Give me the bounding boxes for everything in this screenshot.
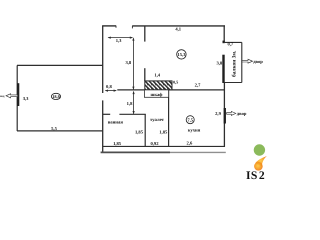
wire bathroom top wall right <box>119 113 145 115</box>
node room label 15,3 <box>177 50 186 59</box>
svg-text:вход: вход <box>0 94 5 98</box>
svg-text:2,7: 2,7 <box>195 83 201 88</box>
svg-text:шкаф: шкаф <box>151 92 164 97</box>
node closet label box <box>144 90 168 97</box>
wire left main wall lower <box>102 100 104 152</box>
svg-text:0,5: 0,5 <box>173 80 178 85</box>
svg-text:двор: двор <box>253 59 263 64</box>
svg-text:ванная: ванная <box>108 121 124 126</box>
node dimension 1,3 arrow <box>108 37 132 39</box>
svg-text:кухня: кухня <box>188 129 201 134</box>
wire bathroom top wall left <box>103 113 111 115</box>
svg-text:2,9: 2,9 <box>215 111 221 116</box>
diode balcony yard arrow <box>242 59 253 63</box>
node door tick left of top gap <box>115 26 117 28</box>
wire outer south wall west part <box>101 151 170 153</box>
svg-text:0,92: 0,92 <box>150 141 159 146</box>
svg-text:1,85: 1,85 <box>135 129 144 134</box>
wire right main wall below balcony <box>223 83 225 147</box>
wire left wing bottom wall <box>17 130 103 132</box>
node watermark orange comma <box>255 156 267 166</box>
node dimension 0,8 arrow <box>105 90 116 92</box>
svg-text:3,8: 3,8 <box>216 60 222 65</box>
svg-text:1,85: 1,85 <box>159 129 168 134</box>
wire balcony window thick wall <box>222 55 224 83</box>
svg-text:5,5: 5,5 <box>51 126 57 131</box>
wire inner south wall <box>103 145 225 147</box>
svg-text:0,7: 0,7 <box>227 42 233 47</box>
node dimension 1,8 vertical arrow <box>133 92 135 114</box>
node balcony door jamb top <box>223 41 225 44</box>
wire entrance door leaf thick <box>17 83 19 106</box>
wire right main wall above balcony door <box>223 25 225 43</box>
svg-text:1,85: 1,85 <box>113 141 122 146</box>
diode entrance arrow left <box>6 94 18 98</box>
wire kitchen door leaf thick <box>224 108 226 124</box>
svg-text:двор: двор <box>237 111 247 116</box>
svg-text:1,3: 1,3 <box>116 38 122 43</box>
svg-text:7,5: 7,5 <box>187 118 193 123</box>
svg-text:IS: IS <box>246 169 258 180</box>
node door tick right of top gap <box>131 26 133 29</box>
wire outer south wall east part <box>170 151 226 153</box>
node room label 18,8 <box>51 93 60 99</box>
wire top wall left segment <box>102 25 116 27</box>
wire interior wall horizontal <box>117 89 224 91</box>
svg-text:2: 2 <box>259 169 265 180</box>
svg-text:18,8: 18,8 <box>52 94 60 99</box>
wire interior stub lower <box>144 68 146 81</box>
wire balcony right edge <box>241 42 243 82</box>
wire left wing top wall <box>17 64 103 66</box>
svg-text:2,6: 2,6 <box>187 141 193 146</box>
svg-text:3,8: 3,8 <box>125 60 131 65</box>
svg-text:15,3: 15,3 <box>177 52 186 57</box>
wire balcony bottom edge <box>224 82 241 84</box>
node dimension 5,8 vertical arrow <box>132 38 134 89</box>
svg-text:туалет: туалет <box>150 118 165 123</box>
wire left main wall upper <box>102 26 104 93</box>
node room label 7,5 <box>186 116 194 124</box>
wire balcony top edge <box>224 41 242 43</box>
wire top wall right segment <box>132 25 225 27</box>
wire left wing west wall <box>16 65 18 131</box>
wire interior stub upper <box>144 26 146 42</box>
svg-text:0,8: 0,8 <box>106 84 112 89</box>
node watermark green circle <box>254 144 265 155</box>
wire bath-toilet divider <box>144 114 146 146</box>
svg-text:3,3: 3,3 <box>23 96 29 101</box>
svg-text:1,4: 1,4 <box>154 73 160 78</box>
diode kitchen yard arrow <box>227 111 236 115</box>
capacitor closet hatched box <box>145 81 172 90</box>
svg-text:1,8: 1,8 <box>127 101 133 106</box>
svg-text:балкон 3м.: балкон 3м. <box>232 50 238 77</box>
wire toilet-kitchen divider <box>168 90 170 146</box>
svg-text:4,1: 4,1 <box>175 26 181 31</box>
